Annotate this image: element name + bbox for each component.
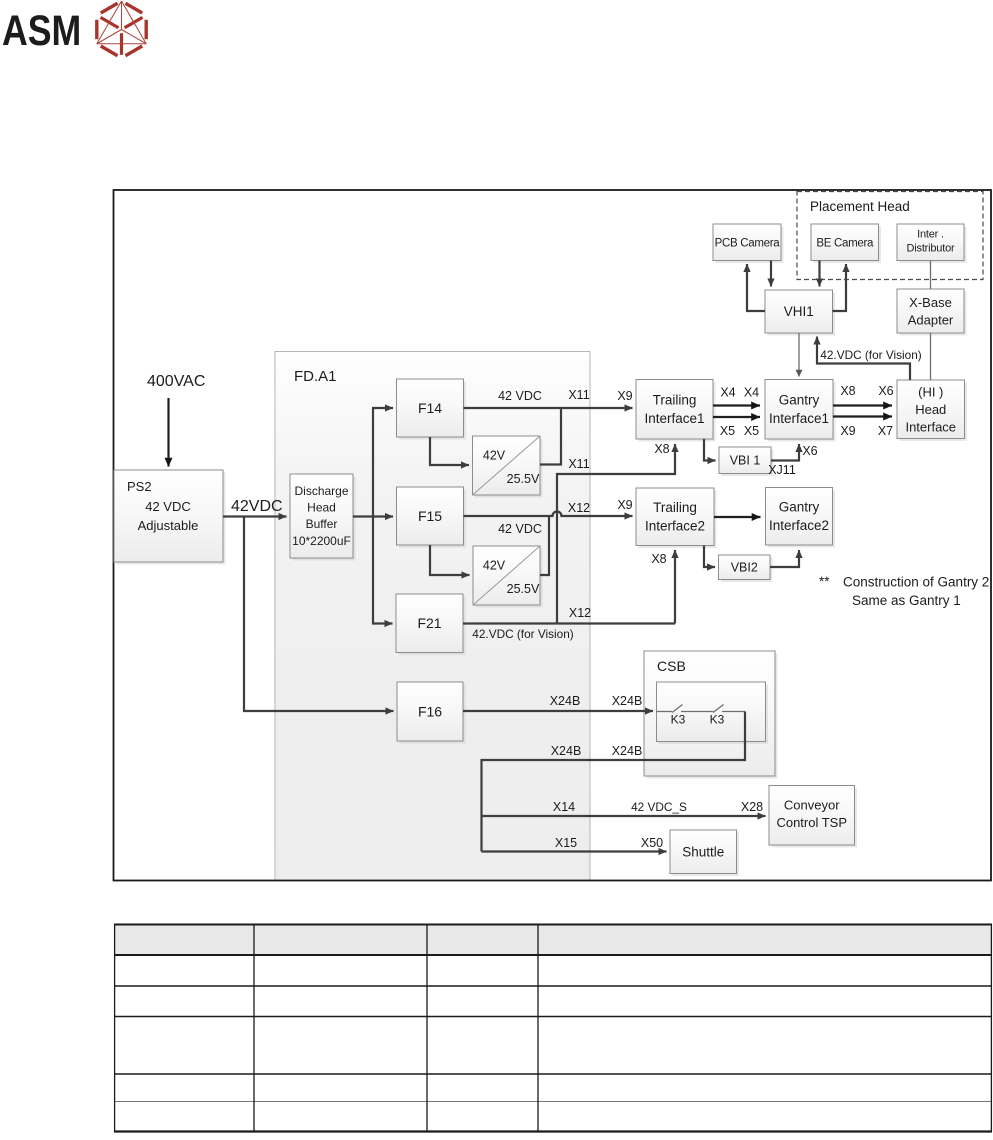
- svg-text:Interface1: Interface1: [644, 411, 704, 426]
- svg-text:10*2200uF: 10*2200uF: [292, 534, 351, 548]
- svg-text:42 VDC: 42 VDC: [498, 389, 542, 403]
- svg-text:X7: X7: [878, 424, 893, 438]
- svg-text:Conveyor: Conveyor: [784, 797, 840, 812]
- svg-text:CSB: CSB: [657, 658, 686, 674]
- FD.A1 enclosure: [275, 352, 590, 881]
- svg-text:XJ11: XJ11: [768, 463, 796, 477]
- svg-text:VBI 1: VBI 1: [730, 454, 761, 468]
- VBI2: [719, 555, 773, 582]
- svg-text:400VAC: 400VAC: [147, 373, 205, 390]
- svg-text:Distributor: Distributor: [907, 243, 955, 255]
- svg-text:Head: Head: [915, 402, 946, 417]
- Conveyor Control TSP: [769, 786, 857, 848]
- wire PS2 branch down to F16: [244, 517, 394, 712]
- fuse F14: [397, 379, 467, 440]
- wire F14 to converter U1: [430, 437, 469, 465]
- wire F16 output X24B to K3: [463, 710, 653, 712]
- svg-text:PCB Camera: PCB Camera: [715, 237, 781, 249]
- svg-text:X8: X8: [654, 442, 669, 456]
- wire PS2 to Discharge Head Buffer: [223, 515, 287, 517]
- fuse F21: [396, 594, 466, 655]
- svg-text:F21: F21: [417, 615, 441, 631]
- wire Trailing2 to VBI2: [704, 546, 715, 568]
- svg-text:X-Base: X-Base: [909, 295, 952, 310]
- wire X-Base Adapter to HI: [930, 333, 932, 380]
- wire VBI2 to Gantry Interface2: [770, 550, 799, 567]
- Placement Head dashed group: [797, 192, 983, 280]
- svg-text:42 VDC: 42 VDC: [498, 522, 542, 536]
- svg-text:42.VDC (for Vision): 42.VDC (for Vision): [472, 627, 573, 641]
- wire converter U1 output joining F14 line: [540, 409, 561, 465]
- K3 relay box: [657, 682, 769, 744]
- svg-text:X5: X5: [744, 424, 759, 438]
- wire BE Camera down to VHI1: [818, 261, 820, 287]
- wire fuse bus vertical: [372, 408, 374, 624]
- wire converter U2 output joining F15 line: [540, 517, 549, 575]
- wire bus to F14: [372, 407, 393, 409]
- Gantry Interface2: [766, 488, 836, 548]
- table borders: [114, 924, 992, 1132]
- fuse F15: [397, 487, 467, 548]
- PS2 power supply: [114, 470, 226, 565]
- svg-text:Same as Gantry 1: Same as Gantry 1: [852, 593, 961, 608]
- svg-text:Buffer: Buffer: [306, 517, 338, 531]
- svg-text:42V: 42V: [483, 559, 506, 573]
- svg-text:X5: X5: [720, 424, 735, 438]
- svg-text:X9: X9: [617, 389, 632, 403]
- svg-text:PS2: PS2: [127, 479, 152, 494]
- wire VHI1 down to Gantry1 thin: [798, 333, 800, 377]
- svg-text:42VDC: 42VDC: [231, 498, 283, 515]
- svg-text:VBI2: VBI2: [731, 561, 758, 575]
- svg-text:42 VDC_S: 42 VDC_S: [631, 800, 687, 814]
- table header row fill: [114, 925, 992, 955]
- HI Head Interface: [897, 380, 967, 441]
- svg-text:25.5V: 25.5V: [507, 582, 540, 596]
- svg-text:Trailing: Trailing: [653, 393, 697, 408]
- svg-text:X4: X4: [720, 386, 735, 400]
- svg-text:X8: X8: [651, 552, 666, 566]
- Gantry Interface1: [765, 380, 836, 442]
- wire VHI1 right to BE Camera: [833, 264, 847, 311]
- wire X15 to Shuttle: [482, 850, 667, 852]
- svg-text:Interface1: Interface1: [769, 411, 829, 426]
- svg-text:BE Camera: BE Camera: [816, 237, 874, 249]
- svg-text:X24B: X24B: [612, 744, 643, 758]
- X-Base Adapter: [897, 289, 967, 336]
- svg-text:(HI ): (HI ): [918, 384, 943, 399]
- svg-text:Adjustable: Adjustable: [138, 518, 199, 533]
- wire Gantry1 to HI X8-X6: [833, 404, 892, 406]
- wire riser to Trailing2 X8: [674, 550, 676, 624]
- svg-text:X12: X12: [568, 501, 590, 515]
- svg-text:F14: F14: [418, 400, 442, 416]
- converter U1 42V/25.5V: [473, 436, 543, 498]
- svg-text:X24B: X24B: [550, 694, 581, 708]
- Inter Distributor: [897, 224, 967, 263]
- svg-text:Head: Head: [307, 501, 336, 515]
- Discharge Head Buffer: [290, 474, 356, 561]
- wire K3 return X24B: [482, 712, 746, 852]
- svg-text:X11: X11: [568, 388, 589, 402]
- svg-text:X6: X6: [878, 384, 893, 398]
- svg-text:X8: X8: [840, 384, 855, 398]
- svg-text:X28: X28: [741, 800, 763, 814]
- svg-text:X9: X9: [840, 424, 855, 438]
- ASM logo text: [2, 7, 81, 55]
- svg-text:X50: X50: [641, 836, 663, 850]
- svg-text:X24B: X24B: [612, 694, 643, 708]
- wire Trailing2 to Gantry2: [714, 516, 761, 518]
- wire bus to F21: [372, 622, 393, 624]
- wire 400VAC arrow into PS2: [167, 398, 169, 467]
- svg-text:X12: X12: [569, 606, 591, 620]
- BE Camera: [811, 224, 881, 263]
- svg-text:Inter .: Inter .: [917, 229, 944, 241]
- CSB box: [644, 651, 778, 779]
- svg-text:X14: X14: [553, 800, 575, 814]
- VBI 1: [719, 447, 774, 476]
- svg-text:42.VDC (for Vision): 42.VDC (for Vision): [820, 348, 921, 362]
- svg-text:Gantry: Gantry: [779, 393, 820, 408]
- svg-text:X4: X4: [744, 386, 759, 400]
- svg-text:Adapter: Adapter: [908, 312, 954, 327]
- wire VBI 1 to Gantry Interface1 X6: [771, 444, 799, 461]
- wire F14 output 42VDC to Trailing Interface1 X9: [464, 407, 633, 409]
- svg-text:42V: 42V: [483, 449, 506, 463]
- svg-text:Interface2: Interface2: [769, 518, 829, 533]
- svg-text:25.5V: 25.5V: [507, 472, 540, 486]
- wire Inter Distributor to X-Base Adapter: [930, 261, 932, 290]
- svg-text:ASM: ASM: [2, 7, 81, 55]
- fuse F16: [397, 682, 466, 744]
- ASM logo hexagon: [97, 1, 146, 56]
- svg-text:**: **: [819, 574, 830, 589]
- svg-text:X6: X6: [802, 444, 817, 458]
- svg-text:X9: X9: [617, 498, 632, 512]
- wire F15 to converter U2: [430, 545, 470, 575]
- svg-text:VHI1: VHI1: [784, 304, 814, 319]
- VHI1: [765, 290, 835, 336]
- wire F15 output to Trailing Interface2 X9 with hop: [464, 512, 633, 517]
- svg-text:X11: X11: [568, 457, 589, 471]
- PCB Camera: [713, 224, 784, 263]
- svg-text:Construction of Gantry 2: Construction of Gantry 2: [843, 575, 989, 590]
- svg-text:K3: K3: [671, 713, 686, 727]
- svg-text:Control TSP: Control TSP: [776, 815, 847, 830]
- svg-text:F15: F15: [418, 508, 442, 524]
- Trailing Interface2: [636, 488, 717, 548]
- svg-text:X24B: X24B: [551, 744, 582, 758]
- Shuttle: [670, 830, 739, 876]
- wire vision riser to Trailing1 X8: [557, 444, 675, 624]
- svg-text:Trailing: Trailing: [653, 500, 697, 515]
- svg-text:Placement Head: Placement Head: [810, 199, 910, 214]
- svg-text:Discharge: Discharge: [294, 484, 348, 498]
- wire Discharge buffer to F15: [353, 515, 393, 517]
- converter U2 42V/25.5V: [473, 546, 543, 608]
- wire Trailing1 to Gantry1 X4: [713, 404, 760, 406]
- K3 relay contacts wire: [657, 705, 746, 713]
- Trailing Interface1: [636, 380, 716, 442]
- wire Gantry1 to HI X9-X7: [833, 415, 892, 417]
- wire F21 output 42.VDC for Vision: [463, 622, 675, 624]
- wire X14 to Conveyor Control TSP: [482, 815, 766, 817]
- svg-text:X15: X15: [555, 836, 577, 850]
- wire Trailing1 to VBI 1: [704, 439, 716, 461]
- wire 42VDC vision from HI to VHI1: [817, 337, 910, 381]
- wire PCB Camera down to VHI1: [770, 261, 772, 287]
- svg-text:F16: F16: [418, 703, 442, 719]
- svg-text:FD.A1: FD.A1: [294, 368, 337, 385]
- diagram outer border: [114, 190, 992, 881]
- wire Trailing1 to Gantry1 X5: [713, 416, 760, 418]
- svg-text:Interface: Interface: [905, 419, 956, 434]
- wire VHI1 left to PCB Camera: [747, 264, 765, 311]
- svg-text:Interface2: Interface2: [645, 519, 705, 534]
- svg-text:K3: K3: [710, 713, 725, 727]
- svg-text:Gantry: Gantry: [779, 500, 820, 515]
- svg-text:42 VDC: 42 VDC: [145, 499, 191, 514]
- svg-text:Shuttle: Shuttle: [682, 845, 724, 860]
